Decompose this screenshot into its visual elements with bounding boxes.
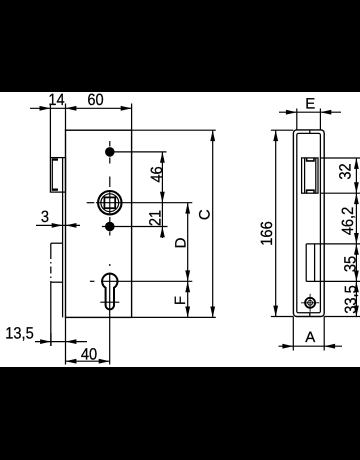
square follower [98,191,121,214]
bottom parting tick [309,313,311,317]
A dimension line [279,345,343,347]
svg-text:E: E [305,95,315,112]
14 dim arrows [40,106,51,111]
svg-text:33,5: 33,5 [342,285,360,314]
166 extension lines [271,129,293,131]
chain extension lines [320,157,360,159]
cylinder slot [305,244,307,282]
lock case outline [66,130,132,317]
cylinder vertical centerline down to 40 dim [109,273,111,365]
35 dim arrows [354,244,359,255]
svg-text:13,5: 13,5 [5,325,34,343]
bottom hole extension [102,226,168,228]
A extension lines [292,317,294,351]
60 dim arrows [66,106,77,111]
46 / 21 dimension line [161,152,163,238]
svg-text:21: 21 [147,210,165,226]
svg-text:166: 166 [258,221,276,245]
top parting tick [309,130,311,133]
latch left edge / 14-extension line [49,104,51,158]
faceplate inner outline [297,133,321,312]
21 dim bottom arrow [160,227,165,238]
svg-text:D: D [173,237,190,248]
case right edge extension to top dim [131,104,133,131]
latch bevel bars [52,158,58,160]
166 dim arrows [273,130,278,141]
case bottom extension to C [132,316,216,318]
case left edge extended (dim extension top and bottom) [65,104,67,131]
follower horizontal centerline + extension [96,202,192,204]
bottom black band [0,367,360,460]
top fixing hole [105,147,115,157]
3 dimension line [36,224,80,226]
E dimension line [279,111,341,113]
faceplate inner edge (side view) [62,158,64,318]
vertical centerline dashes [109,141,111,147]
13,5 left extension [50,333,52,346]
40 dim arrows [66,359,77,364]
C dimension line [212,130,214,317]
A dim arrows [282,344,293,349]
40 dimension line [66,360,110,362]
bottom fixing hole [105,222,115,232]
svg-text:3: 3 [41,208,49,226]
top dimension line 14 / 60 [30,107,132,109]
top hole extension [114,151,167,153]
svg-text:F: F [172,296,189,305]
right chain dimension line [355,158,357,317]
svg-text:60: 60 [87,91,103,109]
latch head rectangle [50,158,65,193]
svg-text:46: 46 [148,166,166,182]
D / F dimension line [187,203,189,318]
46 dim arrows [160,152,165,163]
cylinder horizontal centerline + extension [101,280,192,282]
C dim arrows [210,130,215,141]
svg-text:46,2: 46,2 [339,207,357,236]
svg-text:32: 32 [337,163,355,179]
3 dim arrows [52,223,63,228]
13,5 dim arrows [40,339,51,344]
svg-text:A: A [305,329,315,346]
screw hole [301,294,319,312]
top black band [0,0,360,92]
cylinder bottom tick [100,301,119,303]
46,2 dim arrows [354,193,359,204]
166 dimension line [275,130,277,316]
bolt edge continuing as 13,5 extension [50,282,52,346]
33,5 dim arrows [354,281,359,292]
D dim arrows [185,203,190,214]
case top extension to C [132,129,216,131]
E extension lines [296,109,298,131]
latch cutout [302,158,318,193]
E dim arrows [286,110,297,115]
svg-text:14: 14 [48,91,64,109]
svg-text:35: 35 [342,256,360,272]
svg-text:C: C [197,209,214,220]
faceplate outer outline [293,130,324,317]
13,5 dimension line [35,341,87,343]
bolt (thrown) rectangle [51,242,63,244]
F dim arrows [185,281,190,292]
svg-text:40: 40 [81,346,97,364]
profile cylinder keyhole [102,274,117,310]
32 dim arrows [354,158,359,169]
